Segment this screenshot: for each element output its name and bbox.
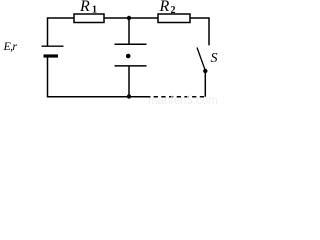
svg-text:R: R bbox=[79, 0, 90, 15]
svg-text:1: 1 bbox=[92, 5, 97, 16]
svg-text:S: S bbox=[211, 51, 218, 66]
svg-text:E,r: E,r bbox=[3, 39, 18, 53]
svg-text:R: R bbox=[159, 0, 170, 15]
svg-text:manfen5.com: manfen5.com bbox=[148, 95, 218, 105]
svg-text:2: 2 bbox=[171, 5, 176, 16]
